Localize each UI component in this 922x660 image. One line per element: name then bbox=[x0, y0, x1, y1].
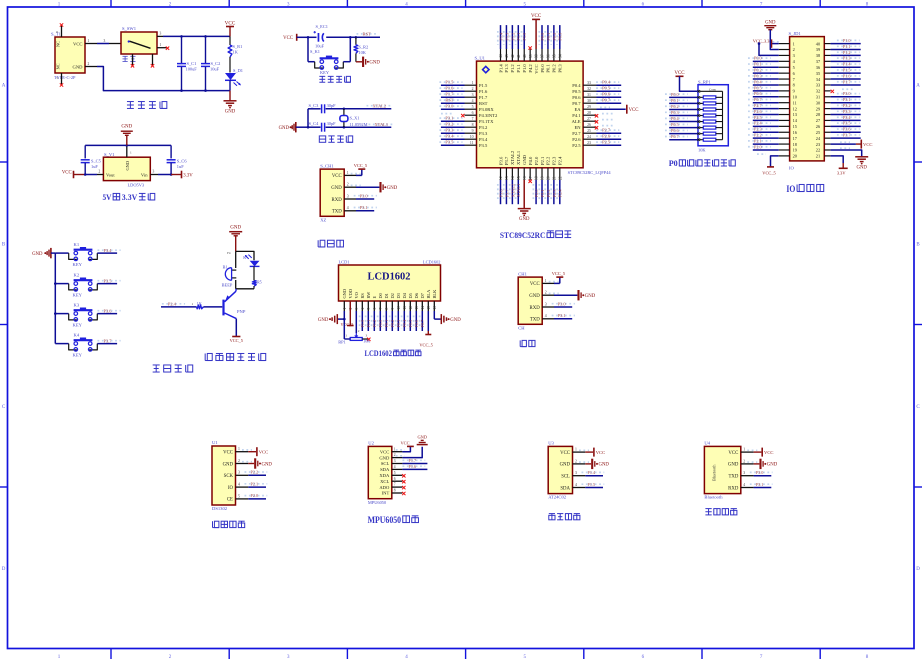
junction bbox=[84, 173, 87, 176]
svg-text:RST: RST bbox=[445, 98, 453, 103]
svg-text:5V: 5V bbox=[103, 192, 113, 202]
mcu bottom pin 15 XTAL1 bbox=[516, 150, 522, 204]
RP1 resistor element P0.4 bbox=[665, 116, 723, 123]
svg-text:42: 42 bbox=[511, 54, 515, 58]
svg-text:8: 8 bbox=[394, 489, 396, 493]
svg-text:S_C6: S_C6 bbox=[177, 158, 188, 163]
JD1 VCC_3.3 branch to pin3 bbox=[758, 42, 779, 55]
svg-text:LCD1602: LCD1602 bbox=[423, 260, 441, 265]
svg-text:P3.1: P3.1 bbox=[360, 205, 368, 210]
svg-text:P1.4: P1.4 bbox=[498, 64, 503, 73]
svg-text:P0.7: P0.7 bbox=[754, 97, 762, 102]
lcd pin 5 RW bbox=[366, 291, 372, 331]
svg-text:9: 9 bbox=[391, 308, 395, 310]
svg-text:GND: GND bbox=[765, 21, 776, 26]
mcu top pin 37 P0.0 bbox=[539, 25, 545, 73]
svg-text:39: 39 bbox=[529, 54, 533, 58]
svg-text:4: 4 bbox=[575, 483, 577, 487]
svg-text:P2.3: P2.3 bbox=[754, 127, 762, 132]
RP1 resistor element P0.7 bbox=[665, 134, 723, 141]
svg-text:GND: GND bbox=[585, 294, 596, 299]
svg-text:MPU6050: MPU6050 bbox=[368, 500, 387, 505]
JD1 left pin 10 bbox=[748, 91, 797, 99]
svg-text:CH: CH bbox=[518, 325, 525, 330]
download port pin 2 GND bbox=[331, 182, 397, 192]
svg-text:P3.0: P3.0 bbox=[756, 470, 764, 475]
mcu left pin 1 P1.5 bbox=[439, 80, 488, 88]
title STC89C52RC主芯片 bbox=[500, 230, 571, 240]
svg-text:1: 1 bbox=[343, 308, 347, 310]
svg-text:P2.2: P2.2 bbox=[251, 470, 259, 475]
svg-text:PNP: PNP bbox=[237, 309, 246, 314]
svg-text:5: 5 bbox=[56, 76, 58, 80]
svg-text:XTAL2: XTAL2 bbox=[373, 103, 387, 108]
svg-text:P2.0: P2.0 bbox=[251, 493, 259, 498]
capacitor C5 bbox=[81, 158, 102, 174]
svg-text:30pF: 30pF bbox=[327, 121, 337, 126]
lcd pin 16 BLK bbox=[432, 289, 437, 311]
svg-text:P1.5: P1.5 bbox=[445, 80, 454, 85]
svg-text:1: 1 bbox=[160, 43, 162, 47]
download port pin 4 TXD bbox=[332, 205, 377, 215]
clock module pin 3 SCK bbox=[224, 470, 268, 480]
svg-text:IO: IO bbox=[228, 486, 234, 491]
svg-text:16: 16 bbox=[433, 306, 437, 310]
svg-text:VCC: VCC bbox=[259, 450, 268, 455]
svg-text:25: 25 bbox=[587, 129, 591, 133]
svg-text:S_C2: S_C2 bbox=[211, 61, 221, 66]
svg-text:P3.0: P3.0 bbox=[445, 104, 454, 109]
serial port pin 2 GND bbox=[529, 290, 595, 300]
svg-text:S_C1: S_C1 bbox=[187, 61, 197, 66]
svg-text:P2.0: P2.0 bbox=[534, 189, 539, 198]
svg-text:INT: INT bbox=[382, 491, 390, 496]
title 复位电路 bbox=[319, 76, 350, 82]
svg-text:S_R2: S_R2 bbox=[358, 44, 368, 49]
svg-text:2: 2 bbox=[793, 47, 795, 52]
title MPU6050模块 bbox=[368, 515, 419, 525]
svg-text:VDD: VDD bbox=[348, 289, 353, 299]
svg-text:P3.5: P3.5 bbox=[479, 143, 488, 148]
svg-text:P0.7: P0.7 bbox=[602, 98, 611, 103]
svg-text:P0.3: P0.3 bbox=[671, 110, 679, 115]
svg-text:D7: D7 bbox=[420, 292, 425, 298]
svg-text:U2: U2 bbox=[368, 441, 374, 446]
pushbutton K4 bbox=[55, 332, 120, 357]
svg-text:VCC_5: VCC_5 bbox=[354, 163, 368, 168]
svg-text:P1.1: P1.1 bbox=[366, 320, 371, 328]
svg-text:2: 2 bbox=[472, 87, 474, 91]
svg-text:3.3V: 3.3V bbox=[122, 192, 138, 202]
svg-text:4: 4 bbox=[347, 206, 349, 210]
pushbutton K1 reset bbox=[310, 49, 343, 75]
mcu bottom pin 19 P2.1 bbox=[539, 156, 545, 204]
lcd pin 11 D4 bbox=[402, 292, 408, 331]
junction bbox=[180, 35, 183, 38]
svg-text:RP1: RP1 bbox=[338, 340, 346, 345]
svg-text:Bluetooth: Bluetooth bbox=[711, 464, 716, 481]
serial port pin 3 RXD bbox=[530, 301, 575, 311]
svg-text:P3.3: P3.3 bbox=[843, 109, 851, 114]
svg-text:P0.0: P0.0 bbox=[540, 64, 545, 73]
svg-text:11.0592M: 11.0592M bbox=[350, 122, 368, 127]
svg-text:P1.2: P1.2 bbox=[510, 33, 515, 41]
mcu top pin 34 P0.3 bbox=[557, 25, 563, 73]
JD1 right pin 30 bbox=[816, 97, 861, 105]
svg-text:P3.4: P3.4 bbox=[445, 134, 454, 139]
svg-text:P3.1: P3.1 bbox=[843, 97, 851, 102]
svg-text:U4: U4 bbox=[704, 441, 710, 446]
svg-text:3: 3 bbox=[545, 302, 547, 306]
resistor R1 bbox=[228, 36, 242, 72]
svg-text:S_C5: S_C5 bbox=[91, 158, 102, 163]
svg-text:P3.0: P3.0 bbox=[360, 193, 369, 198]
mcu left pin 3 P1.7 bbox=[439, 92, 488, 100]
mcu top pin 39 P4.2 bbox=[528, 46, 533, 72]
svg-text:P2.7: P2.7 bbox=[754, 103, 762, 108]
svg-text:15: 15 bbox=[793, 124, 797, 129]
svg-text:GND: GND bbox=[379, 455, 390, 460]
svg-text:P0.4: P0.4 bbox=[671, 116, 679, 121]
svg-text:P0: P0 bbox=[669, 159, 678, 168]
mpu6050 pin 2 GND bbox=[379, 435, 427, 461]
T1 top pin (NC) bbox=[56, 23, 63, 37]
junction bbox=[126, 144, 129, 147]
svg-text:P0.0: P0.0 bbox=[540, 32, 545, 41]
svg-text:2: 2 bbox=[238, 459, 240, 463]
lcd pin1 GND wire bbox=[318, 311, 346, 324]
svg-text:SCL: SCL bbox=[561, 475, 570, 480]
svg-text:VCC_5: VCC_5 bbox=[552, 271, 566, 276]
svg-text:P3.1TX: P3.1TX bbox=[479, 119, 494, 124]
svg-text:P0.4: P0.4 bbox=[602, 80, 611, 85]
svg-text:P2.7: P2.7 bbox=[572, 131, 581, 136]
mcu left pin 11 P3.5 bbox=[439, 140, 488, 148]
SW1 right lower pin bbox=[157, 43, 169, 50]
mpu6050 U2 body bbox=[368, 441, 392, 506]
wire LED to rail bbox=[229, 80, 231, 90]
svg-text:1K: 1K bbox=[233, 49, 239, 54]
RP1 common row bbox=[698, 87, 723, 92]
svg-text:3: 3 bbox=[394, 459, 396, 463]
JD1 right pin 34 bbox=[816, 73, 861, 81]
svg-text:5: 5 bbox=[793, 65, 795, 70]
svg-text:GND: GND bbox=[262, 462, 273, 467]
svg-text:XDA: XDA bbox=[379, 473, 390, 478]
svg-text:A: A bbox=[916, 84, 920, 89]
svg-text:14: 14 bbox=[511, 176, 515, 180]
svg-text:P0.3: P0.3 bbox=[396, 320, 401, 328]
svg-text:P1.6: P1.6 bbox=[479, 89, 488, 94]
mpu6050 pin 7 ADO bbox=[379, 483, 405, 490]
mcu right pin 24 P2.6 bbox=[572, 134, 621, 142]
svg-text:P0.5: P0.5 bbox=[602, 86, 611, 91]
svg-text:6: 6 bbox=[472, 111, 474, 115]
svg-text:23: 23 bbox=[816, 142, 820, 147]
svg-text:P3.4: P3.4 bbox=[104, 248, 113, 253]
svg-text:P0.4: P0.4 bbox=[402, 319, 407, 327]
svg-text:P1.4: P1.4 bbox=[843, 62, 851, 67]
title IO拓展口 bbox=[786, 184, 823, 194]
JD1 left pin 6 bbox=[748, 68, 796, 76]
svg-text:P0.2: P0.2 bbox=[552, 33, 557, 41]
svg-text:44: 44 bbox=[499, 54, 503, 58]
svg-text:GND: GND bbox=[599, 463, 610, 468]
svg-text:35: 35 bbox=[552, 54, 556, 58]
switch SW1 bbox=[121, 26, 157, 62]
serial port module body CH1 bbox=[518, 271, 542, 330]
mcu top pin 40 P1.0 bbox=[522, 25, 528, 73]
storage module pin 2 GND bbox=[560, 459, 610, 469]
svg-text:KEY: KEY bbox=[320, 70, 330, 75]
svg-text:RXD: RXD bbox=[728, 486, 739, 491]
svg-text:P3.2: P3.2 bbox=[843, 103, 851, 108]
buzzer B1 BEEP bbox=[222, 265, 237, 288]
svg-text:33: 33 bbox=[587, 81, 591, 85]
svg-text:9: 9 bbox=[472, 129, 474, 133]
svg-text:P3.5: P3.5 bbox=[843, 121, 851, 126]
svg-text:K1: K1 bbox=[74, 242, 80, 247]
svg-text:29: 29 bbox=[816, 106, 820, 111]
svg-text:ADO: ADO bbox=[379, 485, 390, 490]
svg-text:VCC: VCC bbox=[764, 450, 773, 455]
svg-text:P0.1: P0.1 bbox=[384, 320, 389, 328]
title 存储模块 bbox=[549, 514, 580, 520]
power GND keys bbox=[32, 248, 55, 258]
svg-text:S_RP1: S_RP1 bbox=[698, 79, 711, 84]
svg-text:P1.2: P1.2 bbox=[510, 64, 515, 73]
svg-text:21: 21 bbox=[816, 154, 820, 159]
crystal top wire bbox=[308, 108, 391, 110]
svg-text:P0.2: P0.2 bbox=[552, 64, 557, 73]
svg-text:VCC_5: VCC_5 bbox=[419, 343, 433, 348]
connector JD1 body bbox=[789, 31, 825, 171]
mcu pin1 diamond marker bbox=[483, 66, 489, 72]
svg-text:P2.5: P2.5 bbox=[602, 140, 611, 145]
svg-text:P0.3: P0.3 bbox=[558, 32, 563, 41]
mcu top pin 38 VCC bbox=[531, 14, 542, 74]
svg-text:7: 7 bbox=[472, 117, 474, 121]
svg-text:1uF: 1uF bbox=[177, 164, 184, 169]
JD1 right pin 27 bbox=[816, 115, 861, 123]
RP1 resistor element P0.1 bbox=[665, 98, 723, 105]
svg-text:P2.2: P2.2 bbox=[546, 156, 551, 165]
svg-text:S_R1: S_R1 bbox=[233, 44, 243, 49]
svg-text:VCC: VCC bbox=[629, 108, 639, 113]
title 电源电路 bbox=[127, 102, 167, 109]
svg-text:3: 3 bbox=[153, 170, 155, 174]
svg-text:P2.0: P2.0 bbox=[754, 144, 762, 149]
svg-text:LCD1602: LCD1602 bbox=[365, 349, 393, 358]
svg-text:VCC: VCC bbox=[380, 449, 389, 454]
svg-text:24: 24 bbox=[587, 135, 591, 139]
mcu right pin 27 ALE bbox=[572, 117, 614, 124]
mpu6050 pin 8 INT bbox=[382, 489, 406, 496]
svg-text:P1.7: P1.7 bbox=[409, 458, 417, 463]
svg-text:P3.7: P3.7 bbox=[843, 133, 851, 138]
svg-text:P1.6: P1.6 bbox=[445, 86, 454, 91]
svg-text:LCD1: LCD1 bbox=[339, 260, 350, 265]
mcu right pin 30 P0.7 bbox=[572, 98, 621, 106]
svg-text:RST: RST bbox=[479, 101, 488, 106]
svg-text:P2.5: P2.5 bbox=[572, 143, 581, 148]
mcu bottom pin 12 P3.6 bbox=[498, 156, 504, 204]
svg-text:3: 3 bbox=[160, 32, 162, 36]
svg-text:3: 3 bbox=[793, 53, 795, 58]
svg-text:F4: F4 bbox=[227, 251, 231, 255]
JD1 left pin 11 bbox=[748, 97, 797, 105]
svg-text:TXD: TXD bbox=[728, 475, 738, 480]
alarm bottom rail bbox=[236, 288, 254, 290]
capacitor C1 bbox=[177, 36, 197, 90]
net label RST bbox=[357, 32, 378, 37]
svg-text:GND: GND bbox=[767, 463, 778, 468]
svg-text:KEY: KEY bbox=[73, 293, 83, 298]
svg-text:7: 7 bbox=[394, 483, 396, 487]
svg-text:XCL: XCL bbox=[380, 479, 389, 484]
svg-text:K: K bbox=[243, 255, 246, 260]
download port module body S_CH1 bbox=[320, 163, 344, 222]
T1 bottom pin (NC) bbox=[56, 73, 63, 87]
svg-text:P2.4: P2.4 bbox=[168, 301, 177, 306]
svg-text:P1.0: P1.0 bbox=[522, 64, 527, 73]
svg-text:D6: D6 bbox=[414, 292, 419, 298]
svg-text:P2.0: P2.0 bbox=[534, 156, 539, 165]
svg-text:GND: GND bbox=[519, 217, 530, 222]
mcu top pin 42 P1.2 bbox=[510, 25, 516, 73]
svg-text:P1.0: P1.0 bbox=[843, 38, 851, 43]
bluetooth module pin 3 TXD bbox=[728, 470, 772, 480]
svg-text:P3.6: P3.6 bbox=[498, 189, 503, 198]
svg-text:9: 9 bbox=[793, 89, 795, 94]
svg-text:IO: IO bbox=[786, 184, 795, 194]
mcu right pin 25 P2.7 bbox=[572, 128, 621, 136]
svg-text:P3.0: P3.0 bbox=[558, 301, 567, 306]
lcd pin 14 D7 bbox=[420, 292, 426, 331]
svg-text:13: 13 bbox=[415, 306, 419, 310]
svg-text:30: 30 bbox=[587, 99, 591, 103]
svg-text:D0: D0 bbox=[378, 292, 383, 298]
svg-text:AT24C02: AT24C02 bbox=[548, 495, 567, 500]
svg-text:P1.3: P1.3 bbox=[843, 56, 851, 61]
mpu6050 pin 4 SDA bbox=[380, 464, 427, 472]
svg-text:34: 34 bbox=[558, 54, 562, 58]
svg-text:3: 3 bbox=[104, 39, 106, 43]
svg-text:P2.5: P2.5 bbox=[754, 115, 762, 120]
svg-text:3.3V: 3.3V bbox=[837, 171, 846, 176]
svg-text:21: 21 bbox=[552, 176, 556, 180]
svg-text:38: 38 bbox=[535, 54, 539, 58]
svg-text:28: 28 bbox=[587, 111, 591, 115]
svg-text:B1: B1 bbox=[223, 265, 228, 270]
svg-text:GND: GND bbox=[223, 462, 234, 467]
mcu top pin 41 P1.1 bbox=[516, 25, 522, 73]
mcu bottom pin 20 P2.2 bbox=[545, 156, 551, 204]
svg-text:12: 12 bbox=[409, 306, 413, 310]
svg-text:40: 40 bbox=[523, 54, 527, 58]
svg-text:P3.7: P3.7 bbox=[504, 189, 509, 198]
storage module pin 3 SCL bbox=[561, 470, 604, 480]
svg-text:28: 28 bbox=[816, 112, 820, 117]
svg-text:KEY: KEY bbox=[73, 323, 83, 328]
lcd pin 6 E bbox=[372, 296, 378, 332]
svg-text:A: A bbox=[2, 84, 6, 89]
net label XTAL1 bbox=[369, 122, 394, 127]
svg-text:P3.3: P3.3 bbox=[445, 128, 454, 133]
svg-text:GND: GND bbox=[279, 126, 290, 131]
svg-text:P0.6: P0.6 bbox=[602, 92, 611, 97]
JD1 left pin 8 bbox=[748, 79, 795, 87]
crystal riser wire bbox=[307, 109, 309, 127]
power VCC RP1 bbox=[674, 71, 698, 91]
svg-text:P3.1: P3.1 bbox=[445, 116, 453, 121]
svg-text:P0.7: P0.7 bbox=[572, 101, 581, 106]
power VCC left bbox=[62, 170, 85, 178]
bluetooth module pin 4 RXD bbox=[728, 482, 772, 492]
svg-text:P0.5: P0.5 bbox=[671, 122, 679, 127]
clock module pin 4 IO bbox=[228, 481, 267, 491]
svg-text:P1.0: P1.0 bbox=[360, 320, 365, 328]
svg-text:4: 4 bbox=[361, 308, 365, 310]
JD1 left pin 18 bbox=[748, 138, 797, 146]
mcu bottom pin 16 GND bbox=[518, 154, 531, 222]
power GND crystal bbox=[279, 122, 308, 132]
svg-text:16: 16 bbox=[523, 176, 527, 180]
mcu bottom pin 21 P2.3 bbox=[551, 156, 557, 204]
svg-text:VCC: VCC bbox=[863, 142, 872, 147]
svg-text:10: 10 bbox=[397, 306, 401, 310]
svg-text:GND: GND bbox=[121, 125, 132, 130]
svg-text:P0.1: P0.1 bbox=[754, 62, 762, 67]
clock module pin 2 GND bbox=[223, 458, 273, 468]
mpu6050 pin 1 VCC bbox=[380, 440, 414, 454]
LED D2 bbox=[243, 255, 259, 267]
svg-text:P0.1: P0.1 bbox=[671, 98, 679, 103]
mcu right pin 31 P0.6 bbox=[572, 92, 621, 100]
mcu right pin 29 EA bbox=[574, 105, 638, 114]
svg-text:P0.6: P0.6 bbox=[671, 128, 679, 133]
svg-text:P2.2: P2.2 bbox=[754, 133, 762, 138]
capacitor C6 bbox=[167, 158, 188, 174]
lcd pin 1 GND bbox=[342, 289, 347, 311]
svg-text:GND: GND bbox=[856, 165, 867, 170]
resistor R2 bbox=[354, 37, 368, 62]
svg-text:SCK: SCK bbox=[224, 474, 234, 479]
JD1 left pin 4 bbox=[748, 56, 796, 64]
svg-text:P2.6: P2.6 bbox=[754, 109, 762, 114]
svg-text:P1.2: P1.2 bbox=[843, 50, 851, 55]
svg-text:29: 29 bbox=[587, 105, 591, 109]
svg-text:P2.2: P2.2 bbox=[546, 189, 551, 197]
svg-text:19: 19 bbox=[793, 148, 797, 153]
RP1 internal bus bbox=[722, 91, 724, 139]
svg-text:GND: GND bbox=[450, 318, 461, 323]
svg-text:VCC: VCC bbox=[531, 14, 542, 19]
lcd pin 12 D5 bbox=[408, 292, 414, 331]
svg-text:1: 1 bbox=[192, 302, 194, 306]
lcd pin 4 RS bbox=[360, 293, 366, 331]
SW1 bottom pin b bbox=[151, 54, 154, 68]
svg-text:1uF: 1uF bbox=[91, 164, 98, 169]
svg-text:P3.5: P3.5 bbox=[104, 278, 113, 283]
clock module pin 1 VCC bbox=[223, 447, 268, 456]
svg-text:D2: D2 bbox=[390, 293, 395, 298]
svg-text:32: 32 bbox=[587, 87, 591, 91]
svg-text:S_D1: S_D1 bbox=[233, 68, 243, 73]
wire buzzer to bottom bbox=[235, 280, 237, 289]
svg-text:D4: D4 bbox=[402, 292, 407, 298]
svg-text:KEY: KEY bbox=[73, 262, 83, 267]
